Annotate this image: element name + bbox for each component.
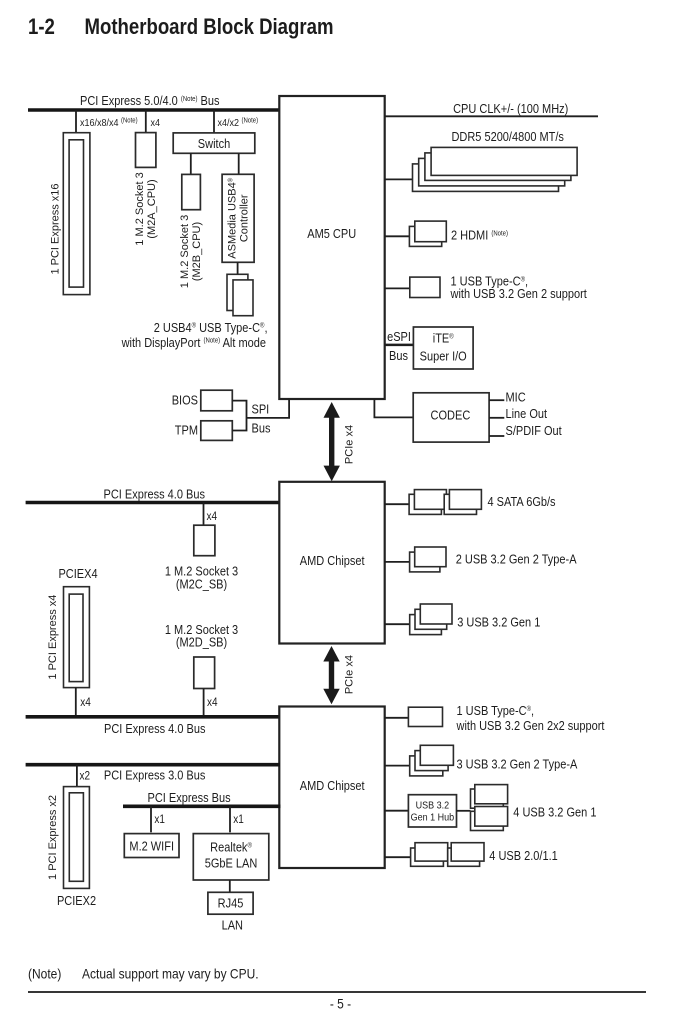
svg-text:1 M.2 Socket 3: 1 M.2 Socket 3 xyxy=(134,172,146,245)
label: 1 M.2 Socket 3 (M2B_CPU) rotated xyxy=(179,215,203,288)
svg-text:1 M.2 Socket 3: 1 M.2 Socket 3 xyxy=(179,215,191,288)
slot PCIEX2: 1 PCI Express x2 xyxy=(64,787,90,889)
label: 1 PCI Express x2 (rotated) xyxy=(47,795,59,880)
port: 1 USB Type-C xyxy=(410,277,440,297)
svg-text:Switch: Switch xyxy=(198,136,230,151)
svg-text:x2: x2 xyxy=(80,770,91,783)
svg-text:PCIe x4: PCIe x4 xyxy=(343,425,355,464)
svg-text:Motherboard Block Diagram: Motherboard Block Diagram xyxy=(85,16,334,40)
svg-text:Line Out: Line Out xyxy=(506,406,548,421)
wire: bus to switch drop xyxy=(213,110,215,133)
svg-text:MIC: MIC xyxy=(506,390,526,405)
wire: bus5 to M.2 WIFI xyxy=(150,806,152,832)
svg-text:LAN: LAN xyxy=(222,918,243,933)
slot PCIEX4: 1 PCI Express x4 xyxy=(64,587,90,688)
svg-text:x4: x4 xyxy=(207,510,218,523)
wire: chipset1 to SATA xyxy=(385,503,410,505)
svg-text:ASMedia USB4®: ASMedia USB4® xyxy=(227,177,239,258)
wire: PCIe x4 double arrow chipset1 to chipset2 xyxy=(323,646,339,704)
label: 2 USB4 USB Type-C with DisplayPort Alt mode xyxy=(121,320,268,350)
svg-text:x4: x4 xyxy=(151,117,161,129)
wire: CPU to HDMI xyxy=(385,235,410,237)
svg-text:1 PCI Express x4: 1 PCI Express x4 xyxy=(47,595,59,680)
label: PCIe x4 (rotated) xyxy=(343,425,355,464)
rule: footer horizontal rule xyxy=(28,991,646,993)
svg-text:with USB 3.2 Gen 2 support: with USB 3.2 Gen 2 support xyxy=(450,286,588,301)
svg-text:with USB 3.2 Gen 2x2 support: with USB 3.2 Gen 2x2 support xyxy=(456,718,605,733)
svg-text:x4: x4 xyxy=(207,696,218,709)
svg-text:PCI Express 4.0 Bus: PCI Express 4.0 Bus xyxy=(104,721,205,736)
wire: eSPI bus CPU to Super I/O xyxy=(385,344,414,347)
title heading 1-2 Motherboard Block Diagram xyxy=(28,16,333,40)
wire: CPU to CODEC xyxy=(374,399,412,417)
svg-text:CPU CLK+/- (100 MHz): CPU CLK+/- (100 MHz) xyxy=(453,101,568,116)
svg-text:Bus: Bus xyxy=(252,421,271,436)
wire: chipset2 to USB 2.0 xyxy=(385,856,411,858)
svg-text:Gen 1 Hub: Gen 1 Hub xyxy=(411,812,455,824)
hub U8: USB 3.2 Gen 1 Hub xyxy=(408,795,456,827)
cpu U1: AM5 CPU xyxy=(279,96,384,399)
chipset U5: AMD Chipset (upper) xyxy=(279,482,384,644)
svg-text:1 PCI Express x16: 1 PCI Express x16 xyxy=(50,183,62,274)
memory: DDR5 DIMM stack (4 modules) xyxy=(413,147,578,191)
svg-text:1 PCI Express x2: 1 PCI Express x2 xyxy=(47,795,59,880)
svg-text:Controller: Controller xyxy=(239,194,251,242)
label: eSPI Bus xyxy=(387,329,411,363)
wire: M2D to bus3 xyxy=(203,689,205,717)
wire: Realtek to RJ45 xyxy=(229,880,231,892)
wire: bus to M2A drop xyxy=(145,110,147,133)
svg-text:PCI Express 4.0 Bus: PCI Express 4.0 Bus xyxy=(104,487,205,502)
socket M2A: M.2 socket rect xyxy=(136,133,156,168)
label: 1 M.2 Socket 3 (M2C_SB) xyxy=(165,564,239,592)
label: 1 PCI Express x16 (rotated) xyxy=(50,183,62,274)
svg-text:PCI Express 3.0 Bus: PCI Express 3.0 Bus xyxy=(104,767,205,782)
socket M2C: M.2 socket rect xyxy=(194,525,215,556)
label: 1 USB Type-C with USB 3.2 Gen 2 support xyxy=(450,274,588,301)
svg-text:with DisplayPort (Note) Alt mo: with DisplayPort (Note) Alt mode xyxy=(121,335,267,350)
label: PCIe x4 (rotated, lower) xyxy=(343,655,355,694)
svg-text:BIOS: BIOS xyxy=(172,393,198,408)
svg-text:x1: x1 xyxy=(154,813,165,826)
wire: CPU to USB Type-C xyxy=(385,287,410,289)
svg-text:1 USB Type-C®,: 1 USB Type-C®, xyxy=(457,703,535,718)
svg-text:3 USB 3.2 Gen 2 Type-A: 3 USB 3.2 Gen 2 Type-A xyxy=(457,757,578,772)
label: SPI Bus xyxy=(252,402,271,436)
wire: bus2 to M2C drop xyxy=(203,503,205,526)
svg-text:PCI Express 5.0/4.0 (Note) Bus: PCI Express 5.0/4.0 (Note) Bus xyxy=(80,93,220,108)
wire: codec MIC stub xyxy=(489,399,504,401)
svg-text:DDR5 5200/4800 MT/s: DDR5 5200/4800 MT/s xyxy=(451,129,563,144)
label: 1 USB Type-C with USB 3.2 Gen 2x2 support xyxy=(456,703,605,733)
svg-text:4 USB 2.0/1.1: 4 USB 2.0/1.1 xyxy=(489,848,558,863)
port: USB4 type-C ports (2 overlapping) xyxy=(227,274,253,315)
svg-text:PCI Express Bus: PCI Express Bus xyxy=(148,790,231,805)
wire: PCIEX4 slot to bus3 xyxy=(75,688,77,717)
wire: ASMedia to USB4 ports xyxy=(237,262,239,274)
port: 4 SATA ports (two pairs) xyxy=(409,490,481,515)
svg-text:SPI: SPI xyxy=(252,402,270,417)
svg-text:- 5 -: - 5 - xyxy=(330,996,351,1012)
socket M2B: M.2 socket rect xyxy=(182,174,201,209)
svg-text:Bus: Bus xyxy=(389,348,408,363)
wire: chipset2 to USB hub xyxy=(385,810,409,812)
svg-text:(M2D_SB): (M2D_SB) xyxy=(176,635,227,650)
svg-text:PCIEX4: PCIEX4 xyxy=(58,566,97,581)
wire: PCIe x4 double arrow CPU to chipset1 xyxy=(324,402,340,481)
svg-text:AMD Chipset: AMD Chipset xyxy=(300,778,365,793)
switch: Switch box xyxy=(173,133,255,153)
bus wire: PCI Express 5.0/4.0 bus (thick) xyxy=(28,108,280,112)
wire: codec S/PDIF stub xyxy=(489,435,504,437)
port: 4 USB 2.0/1.1 ports (two pairs) xyxy=(411,843,484,867)
wire: switch to M2B xyxy=(190,153,192,174)
wire: chipset2 to USB 3.2 Gen 2 Type-A xyxy=(385,765,411,767)
chipset U6: AMD Chipset (lower) xyxy=(279,707,384,869)
wire: hub to USB 3.2 Gen 1 ports xyxy=(457,810,471,812)
wire: bus4 to PCIEX2 drop xyxy=(76,765,78,787)
svg-text:4 SATA 6Gb/s: 4 SATA 6Gb/s xyxy=(488,494,556,509)
wire: bus to PCIEX16 drop xyxy=(75,110,77,133)
svg-text:Super I/O: Super I/O xyxy=(420,349,467,364)
port: 1 USB Type-C (Gen 2x2) xyxy=(408,707,442,726)
io U3: iTE Super I/O xyxy=(413,327,473,369)
bus wire: PCI Express 4.0 bus lower (thick) xyxy=(26,715,281,719)
codec U4: CODEC xyxy=(413,393,489,442)
label: 1 M.2 Socket 3 (M2D_SB) xyxy=(165,622,239,650)
svg-text:1-2: 1-2 xyxy=(28,16,55,40)
svg-text:CODEC: CODEC xyxy=(431,408,471,423)
port: 3 USB 3.2 Gen 2 Type-A ports xyxy=(410,745,454,776)
svg-text:PCIEX2: PCIEX2 xyxy=(57,893,96,908)
bus wire: PCI Express 4.0 bus (thick) xyxy=(26,501,280,505)
note: footer note text xyxy=(28,966,259,982)
svg-text:TPM: TPM xyxy=(175,423,198,438)
svg-text:x1: x1 xyxy=(233,813,244,826)
slot PCIEX16: 1 PCI Express x16 xyxy=(63,133,90,295)
port: 2 HDMI ports xyxy=(409,221,446,246)
wire: chipset1 to USB 3.2 Gen 2 Type-A xyxy=(385,561,410,563)
svg-text:USB 3.2: USB 3.2 xyxy=(416,800,449,812)
port RJ45: RJ45 box xyxy=(208,892,253,914)
svg-text:eSPI: eSPI xyxy=(387,329,411,344)
controller U2: ASMedia USB4 Controller xyxy=(222,174,254,262)
lan U7: Realtek 5GbE LAN xyxy=(193,834,268,880)
wire: chipset1 to USB 3.2 Gen 1 xyxy=(385,623,411,625)
bus wire: PCI Express 3.0 bus (thick) xyxy=(26,763,280,767)
svg-text:5GbE LAN: 5GbE LAN xyxy=(205,856,258,871)
svg-text:RJ45: RJ45 xyxy=(218,896,244,911)
port: 4 USB 3.2 Gen 1 ports (two pairs stacked) xyxy=(471,785,508,831)
socket M2D: M.2 socket rect xyxy=(194,657,215,689)
svg-text:x4: x4 xyxy=(80,696,91,709)
port: 2 USB 3.2 Gen 2 Type-A ports xyxy=(410,547,446,572)
wire: switch to ASMedia controller xyxy=(238,153,240,174)
svg-text:2 USB4® USB Type-C®,: 2 USB4® USB Type-C®, xyxy=(154,320,268,335)
bios: BIOS box xyxy=(201,390,233,411)
svg-text:AMD Chipset: AMD Chipset xyxy=(300,553,365,568)
svg-text:(M2C_SB): (M2C_SB) xyxy=(176,576,227,591)
svg-text:PCIe x4: PCIe x4 xyxy=(343,655,355,694)
wire: chipset2 to USB Type-C 2x2 xyxy=(385,717,409,719)
label: 1 M.2 Socket 3 (M2A_CPU) rotated xyxy=(134,172,158,245)
wire: bus5 to Realtek LAN xyxy=(229,806,231,832)
svg-text:Actual support may vary by CPU: Actual support may vary by CPU. xyxy=(82,966,259,982)
svg-text:Realtek®: Realtek® xyxy=(210,840,252,855)
port: 3 USB 3.2 Gen 1 ports xyxy=(410,604,452,635)
svg-text:S/PDIF Out: S/PDIF Out xyxy=(506,423,563,438)
wire: CPU to DDR5 xyxy=(385,178,413,180)
svg-text:(M2A_CPU): (M2A_CPU) xyxy=(146,179,158,238)
svg-text:M.2 WIFI: M.2 WIFI xyxy=(129,839,174,854)
svg-text:2 USB 3.2 Gen 2 Type-A: 2 USB 3.2 Gen 2 Type-A xyxy=(456,552,577,567)
wire: SPI bus wiring xyxy=(232,399,289,431)
svg-text:4 USB 3.2 Gen 1: 4 USB 3.2 Gen 1 xyxy=(513,805,596,820)
svg-text:3 USB 3.2 Gen 1: 3 USB 3.2 Gen 1 xyxy=(457,614,540,629)
tpm: TPM box xyxy=(201,421,233,441)
label: 1 PCI Express x4 (rotated) xyxy=(47,595,59,680)
svg-text:(M2B_CPU): (M2B_CPU) xyxy=(191,222,203,281)
svg-text:(Note): (Note) xyxy=(28,966,61,982)
bus wire: PCI Express bus (thick) xyxy=(123,804,281,808)
wifi: M.2 WIFI box xyxy=(124,834,179,858)
svg-text:AM5 CPU: AM5 CPU xyxy=(307,226,356,241)
wire: CPU CLK line xyxy=(385,115,598,117)
wire: codec Line Out stub xyxy=(489,417,504,419)
